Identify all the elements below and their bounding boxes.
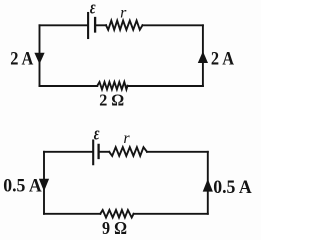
svg-text:2 A: 2 A [10,48,33,69]
resistor r (internal resistance, circuit 1) zigzag [106,21,143,30]
wire bottom-left horizontal (circuit 1) [40,85,98,87]
wire between battery and resistor r (circuit 1) [96,24,106,26]
wire bottom-left horizontal (circuit 2) [44,213,100,215]
wire bottom-right horizontal (circuit 2) [134,213,208,215]
wire top-right horizontal (circuit 1) [143,24,203,26]
svg-text:2 A: 2 A [211,48,234,69]
current arrow 0.5 A down (left side, circuit 2) [39,179,49,192]
resistor 9 ohm (circuit 2) zigzag [100,210,133,218]
resistor 2 ohm (circuit 1) zigzag [97,82,127,89]
wire top-left horizontal (circuit 1) [40,24,88,26]
wire top-left horizontal (circuit 2) [44,151,92,153]
svg-text:ε: ε [90,0,96,18]
wire right vertical (circuit 2) [207,152,209,214]
wire between battery and resistor r (circuit 2) [100,151,110,153]
wire top-right horizontal (circuit 2) [147,151,208,153]
current arrow 0.5 A up (right side, circuit 2) [203,179,213,192]
svg-text:0.5 A: 0.5 A [213,177,252,198]
svg-text:ε: ε [94,122,100,144]
svg-text:9 Ω: 9 Ω [102,218,127,238]
wire left vertical (circuit 2) [43,152,45,214]
svg-text:r: r [120,5,127,22]
current arrow 2 A down (left side, circuit 1) [34,53,44,65]
battery cell (emf source) circuit 2: long plate [92,141,94,165]
wire right vertical (circuit 1) [202,25,204,86]
wire left vertical (circuit 1) [39,25,41,86]
resistor r (internal resistance, circuit 2) zigzag [109,147,147,156]
battery cell (emf source) circuit 1: long plate [87,13,89,38]
svg-text:0.5 A: 0.5 A [3,176,42,197]
svg-text:r: r [123,130,130,147]
current arrow 2 A up (right side, circuit 1) [198,51,208,63]
battery cell circuit 2: short plate [97,145,99,158]
battery cell circuit 1: short plate [94,18,96,32]
svg-text:2 Ω: 2 Ω [99,91,124,110]
wire bottom-right horizontal (circuit 1) [128,85,203,87]
